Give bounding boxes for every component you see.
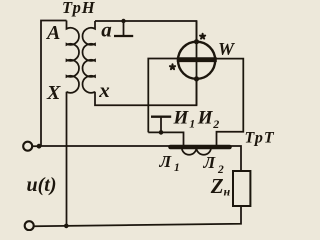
wire: secondary x lead down then right to wattmeter voltage-coil bottom [95, 79, 197, 105]
wire: top terminal to junction [32, 145, 39, 147]
wattmeter bottom terminal dot [194, 76, 199, 81]
main line: u(t) top terminal rail to load (through CT primary) [39, 146, 241, 171]
ground at secondary terminal a: stub [123, 21, 125, 35]
svg-text:Z: Z [210, 174, 224, 198]
junction dot at ground tap on a-wire [121, 19, 125, 23]
transformer TpH primary winding (A-X) [67, 21, 80, 93]
svg-text:ТрН: ТрН [62, 0, 96, 17]
input terminal (bottom, open circle) [25, 221, 34, 230]
svg-text:A: A [45, 22, 60, 44]
svg-text:И: И [173, 108, 190, 129]
wattmeter U1 circle [178, 42, 215, 79]
junction dot at left end of main line [37, 144, 42, 149]
wattmeter current coil thick bar [177, 57, 217, 62]
svg-text:1: 1 [174, 162, 180, 174]
svg-text:X: X [46, 82, 61, 104]
input terminal (top, open circle) [23, 142, 32, 151]
svg-text:x: x [98, 78, 110, 102]
current transformer TpT primary thick bar (L1-L2) [171, 145, 230, 150]
svg-text:2: 2 [212, 117, 219, 131]
wire: top terminal up to TpH primary top (left vertical + top horizontal) [41, 21, 67, 147]
load impedance Zn box [233, 171, 250, 206]
wire: wattmeter current coil left terminal down to I1 node [148, 59, 178, 133]
svg-text:Л: Л [159, 152, 173, 171]
ground at CT secondary I1: bar [151, 116, 171, 118]
wire: primary X lead down to bottom rail (crosses main line, no junction) [66, 92, 68, 227]
transformer TpH secondary winding (a-x) [83, 21, 96, 93]
ground at secondary terminal a: bar [114, 35, 133, 37]
ground at CT secondary I1: stub [160, 117, 162, 132]
svg-text:u(t): u(t) [27, 174, 57, 196]
svg-text:И: И [197, 108, 214, 129]
wattmeter voltage coil vertical line [196, 21, 198, 105]
wire: load bottom to bottom rail back to lower terminal [34, 206, 241, 226]
polarity asterisk at wattmeter current coil [169, 63, 177, 70]
svg-text:Л: Л [203, 153, 217, 172]
wattmeter top terminal dot [194, 39, 199, 44]
current transformer TpT secondary winding bumps [182, 148, 211, 155]
wire: wattmeter current coil right terminal to CT secondary I2 [215, 59, 243, 148]
junction dot at I1 ground node [159, 130, 164, 135]
wire: I1 node line to CT secondary lead [148, 132, 183, 147]
svg-text:ТрТ: ТрТ [245, 130, 275, 147]
svg-text:W: W [218, 39, 236, 59]
svg-text:1: 1 [189, 116, 195, 130]
wire: secondary a to wattmeter voltage-coil top terminal [95, 21, 197, 42]
junction dot where X lead meets bottom rail [64, 224, 69, 229]
svg-text:н: н [224, 185, 231, 199]
polarity asterisk at wattmeter voltage coil [199, 33, 207, 40]
